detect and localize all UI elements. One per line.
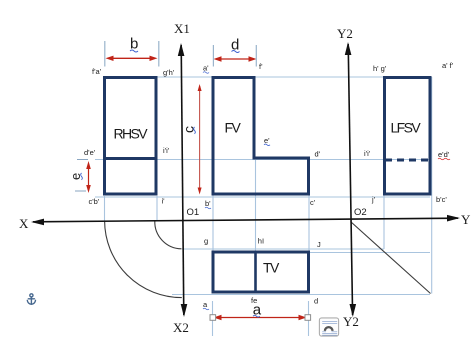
svg-text:X2: X2	[173, 320, 189, 335]
svg-text:X: X	[19, 216, 29, 231]
svg-text:g'h': g'h'	[163, 68, 175, 77]
arrowhead X (left)	[31, 219, 44, 226]
svg-text:e': e'	[264, 136, 270, 145]
squiggle under d	[232, 51, 240, 53]
svg-text:a: a	[253, 302, 262, 319]
svg-text:i'i': i'i'	[364, 149, 371, 158]
svg-text:b'c': b'c'	[436, 195, 447, 204]
X-Y horizontal axis	[33, 218, 458, 222]
svg-text:a' f': a' f'	[442, 61, 454, 70]
projection line H2 d'e' level y159.5	[95, 159, 430, 161]
selection handle right	[305, 315, 311, 321]
selection handle left	[210, 315, 216, 321]
svg-text:Y2: Y2	[337, 26, 353, 41]
projection line V7 dim a right ext x308.5	[308, 301, 310, 336]
projection line V2 RHSV right x157	[156, 196, 158, 222]
tick dim e top	[77, 159, 88, 161]
LFSV rectangle	[385, 78, 431, 195]
svg-text:Y: Y	[461, 212, 471, 227]
svg-text:d': d'	[315, 150, 321, 159]
dimension c red vertical arrow	[199, 86, 201, 192]
projection line H5 TV top to miter y252.5	[309, 252, 430, 254]
svg-text:X1: X1	[174, 21, 190, 36]
svg-text:d'e': d'e'	[84, 148, 96, 157]
projection line V4 FV mid x255.5	[255, 158, 257, 252]
projection line H6 TV bottom level y294.5	[172, 294, 430, 296]
smart tag icon	[319, 318, 338, 336]
squiggle under b'	[205, 207, 211, 209]
anchor icon	[27, 294, 35, 305]
arc outer (radius 78 about O1)	[105, 221, 182, 298]
dimension e red vertical arrow	[88, 164, 90, 190]
squiggle right of c	[194, 127, 196, 134]
dimension b red arrow	[108, 57, 155, 59]
svg-text:LFSV: LFSV	[391, 120, 422, 136]
FV L-shape outline	[213, 78, 309, 195]
projection line H3 bottom level y197	[95, 196, 430, 198]
dimension a red arrow (selected)	[215, 317, 305, 319]
RHSV rectangle	[105, 78, 157, 195]
svg-text:g: g	[204, 237, 208, 246]
svg-text:h' g': h' g'	[373, 64, 387, 73]
squiggle right of e	[81, 173, 83, 180]
arrowhead Y2 (top)	[345, 42, 352, 55]
arrowhead X1 (top)	[178, 43, 185, 56]
projection line V8 LFSV left down x384	[383, 194, 385, 249]
arrowhead Y (right)	[447, 215, 460, 222]
dimension b tick left	[104, 41, 106, 67]
squiggle under a point	[203, 308, 209, 310]
svg-text:FV: FV	[225, 119, 242, 135]
miter diagonal line from O2	[351, 222, 431, 294]
svg-text:c': c'	[310, 198, 316, 207]
svg-text:hI: hI	[258, 236, 264, 245]
svg-text:J: J	[317, 240, 321, 249]
squiggle under b	[130, 50, 138, 52]
svg-text:f': f'	[259, 62, 263, 71]
dimension d tick left	[212, 45, 214, 67]
svg-text:Y2: Y2	[343, 314, 359, 329]
svg-text:c'b': c'b'	[89, 197, 100, 206]
projection line H1 top level y77	[104, 76, 430, 78]
arrowhead Y2 (bottom)	[350, 304, 357, 317]
Y2 vertical axis	[348, 44, 352, 315]
X1-X2 vertical axis	[181, 45, 184, 315]
projection line V9 LFSV right down x431	[431, 77, 433, 294]
svg-text:a': a'	[203, 64, 209, 73]
svg-text:RHSV: RHSV	[114, 126, 149, 142]
projection line V5 FV right x309	[308, 194, 310, 252]
dimension d red arrow	[216, 58, 254, 60]
projection line V1 RHSV left x104.5	[104, 196, 106, 222]
tick dim e bottom	[75, 190, 86, 192]
svg-text:f'a': f'a'	[92, 67, 102, 76]
squiggle under a'	[203, 72, 209, 74]
svg-text:e'd': e'd'	[438, 150, 450, 159]
projection line H4 arc level y249	[182, 248, 384, 250]
RHSV divider at d'e' level	[105, 157, 157, 160]
svg-text:O2: O2	[354, 207, 367, 218]
LFSV hidden dashed line	[385, 159, 430, 162]
dimension b tick right	[158, 41, 160, 67]
projection line V3 FV left x213	[212, 195, 214, 252]
squiggle under e'	[264, 144, 270, 146]
svg-text:i'i': i'i'	[163, 146, 170, 155]
arrowhead X2 (bottom)	[181, 304, 188, 317]
dimension d tick right	[255, 45, 257, 67]
svg-text:TV: TV	[263, 259, 280, 275]
red squiggle under e'd'	[438, 158, 450, 160]
svg-text:j': j'	[371, 195, 376, 204]
svg-text:O1: O1	[187, 207, 200, 218]
projection line V6 dim a left ext x212.5	[212, 301, 214, 336]
squiggle under a	[253, 315, 260, 317]
svg-text:b': b'	[205, 199, 211, 208]
TV rectangle	[213, 252, 309, 292]
arc inner (radius 27 about O1)	[155, 221, 182, 249]
svg-text:d: d	[314, 297, 318, 306]
TV divider	[254, 251, 257, 293]
